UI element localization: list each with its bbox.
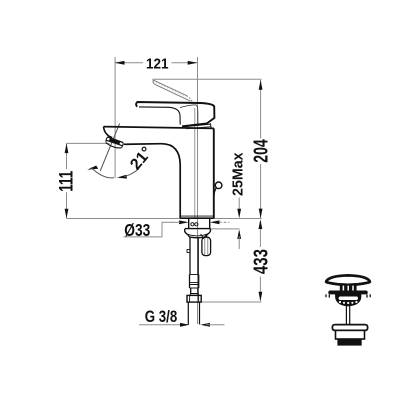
arrow 111 bottom (65, 209, 69, 219)
lever handle solid (136, 102, 214, 129)
dimension 121 line (115, 62, 143, 64)
wire: extension line left (121 / angle vertical leg) (114, 57, 116, 178)
drain cup slot (white) (339, 297, 358, 301)
arrow angle stream end (87, 166, 98, 170)
wire: 433 bottom extension line (202, 301, 262, 303)
base bottom edge (180, 217, 214, 219)
shank below base (189, 219, 210, 229)
dimension 204 vertical line (260, 80, 262, 139)
drain cap inner line (330, 283, 367, 285)
dimension 433 vertical line (259, 221, 261, 247)
escutcheon ring slant bottom (186, 127, 211, 129)
drain cup body (336, 294, 361, 305)
rod guide notch (201, 234, 207, 239)
arrow G3/8 left (pointing right) (180, 323, 190, 327)
arrow 25Max lower (pointing up) (237, 229, 241, 239)
drain neck (340, 285, 357, 291)
drain valve: dome cap (326, 275, 370, 285)
arrow 25Max upper (pointing down) (237, 209, 241, 219)
lever underside detail (139, 107, 180, 125)
supply tube (187, 238, 199, 296)
cartridge neck detail (180, 105, 198, 124)
svg-text:433: 433 (251, 249, 273, 274)
drain base thread (black) (337, 339, 361, 346)
wire: lift rod line inside body (194, 108, 196, 218)
aerator outlet (black) (109, 138, 120, 145)
angle stream line 21deg (100, 124, 119, 172)
escutcheon ring slant top (183, 124, 210, 127)
svg-text:25Max: 25Max (229, 152, 246, 196)
svg-text:204: 204 (251, 139, 273, 163)
tube lower narrow (191, 288, 198, 294)
aerator bottom rim (106, 143, 121, 148)
wire: 25Max lower reference line (210, 228, 239, 230)
wire: extension line right / faucet centerline (197, 57, 199, 324)
coupling rings (190, 275, 199, 289)
arrow 121 right (188, 61, 198, 65)
wire: 111 top extension line (67, 142, 110, 144)
drain stem (346, 306, 349, 325)
dimension G3/8 line (139, 324, 184, 326)
arrow G3/8 right (pointing left) (200, 323, 210, 327)
svg-text:G 3/8: G 3/8 (145, 307, 178, 326)
arrow 433 top (pointing up) (259, 219, 263, 229)
drain flange side tabs (326, 294, 370, 297)
mounting flange nut (185, 229, 211, 239)
arrow 204 top (259, 80, 263, 90)
faucet body outline (104, 127, 214, 219)
aerator right cap (121, 143, 123, 148)
dimension 111 vertical line (66, 143, 68, 169)
arrow Ø33 left (pointing right) (179, 220, 189, 224)
outlet pipe (188, 302, 199, 324)
drain base flange (332, 325, 367, 331)
arrow 204 bottom (259, 209, 263, 219)
drain cup perforations (339, 301, 358, 304)
aerator top edge (108, 137, 123, 143)
spout nose front edge (104, 127, 113, 138)
angle arc (91, 168, 114, 178)
spout underside and body left curve (124, 144, 180, 219)
wire: mounting surface line (67, 218, 262, 220)
G3/8 nut (187, 295, 201, 302)
dimension 25Max line (238, 198, 240, 215)
arrow 433 bottom (pointing down) (259, 292, 263, 302)
base joint line (181, 215, 214, 217)
svg-text:121: 121 (146, 56, 169, 73)
drain base body (336, 330, 365, 339)
tube joint line (190, 274, 198, 276)
shank bolt holes (191, 223, 194, 226)
pop-up rod hook (214, 182, 222, 196)
step ring (190, 294, 198, 296)
lever handle raised position (phantom) (153, 80, 193, 102)
tube left lug (187, 249, 190, 252)
aerator left cap (106, 137, 108, 143)
wire: 204 top extension line (152, 78, 261, 80)
arrow Ø33 right (pointing left) (210, 220, 220, 224)
svg-text:111: 111 (56, 170, 77, 191)
svg-text:Ø33: Ø33 (124, 220, 150, 240)
escutcheon ring right stub (209, 123, 212, 127)
aerator mid line (107, 140, 123, 145)
arrow 111 top (65, 143, 69, 153)
arrow 121 left (115, 61, 125, 65)
dimension Ø33 leader (124, 222, 174, 237)
body shoulder top edge (104, 127, 214, 129)
body right edge (213, 128, 215, 218)
arrow angle arc end (pointing left at vertical line) (117, 175, 127, 179)
pop-up rod lower housing (202, 237, 211, 255)
drain flange (black bar) (328, 291, 367, 295)
